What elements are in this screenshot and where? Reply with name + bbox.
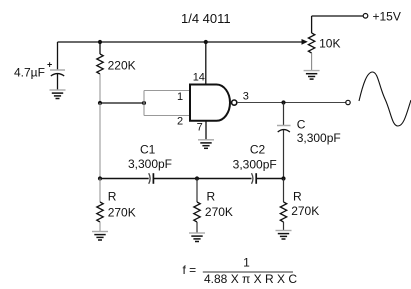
svg-text:3: 3 (243, 90, 249, 102)
svg-text:+15V: +15V (373, 9, 401, 23)
svg-text:1/4 4011: 1/4 4011 (181, 11, 231, 26)
svg-text:4.88 X π X R X C: 4.88 X π X R X C (204, 272, 297, 286)
svg-text:3,300pF: 3,300pF (297, 131, 341, 145)
svg-text:+: + (47, 60, 52, 70)
svg-text:270K: 270K (291, 204, 319, 218)
svg-text:C1: C1 (140, 142, 156, 156)
svg-text:f =: f = (183, 263, 197, 277)
svg-text:1: 1 (243, 256, 250, 270)
svg-text:C: C (297, 118, 306, 132)
svg-text:270K: 270K (108, 206, 136, 220)
svg-text:R: R (108, 190, 117, 204)
svg-text:14: 14 (193, 72, 205, 84)
svg-text:3,300pF: 3,300pF (128, 157, 172, 171)
svg-text:7: 7 (197, 121, 203, 133)
svg-text:270K: 270K (205, 205, 233, 219)
svg-text:2: 2 (177, 116, 183, 128)
svg-text:10K: 10K (319, 36, 340, 50)
svg-text:C2: C2 (250, 142, 266, 156)
svg-text:1: 1 (177, 91, 183, 103)
svg-text:4.7µF: 4.7µF (14, 66, 45, 80)
svg-text:R: R (293, 189, 302, 203)
svg-text:R: R (207, 190, 216, 204)
svg-text:220K: 220K (108, 58, 136, 72)
svg-text:3,300pF: 3,300pF (233, 157, 277, 171)
